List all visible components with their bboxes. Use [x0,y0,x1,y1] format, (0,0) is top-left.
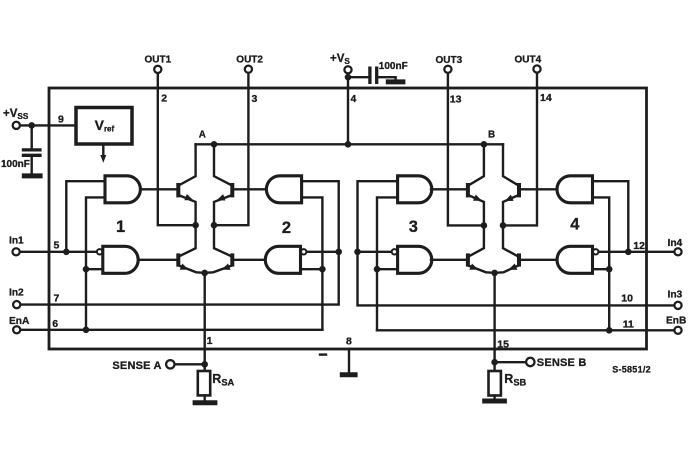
terminal SENSE B [526,358,534,366]
wire EnA up to gate 1a lower input [86,197,105,329]
node B [481,141,488,148]
terminal In1 [13,248,20,255]
transistor Q7 (bridge B lower-left) [431,225,495,273]
node EnA/gate2b junction [319,266,326,273]
ground (C2) [386,79,406,84]
wire bridge A sense (pin 1) [203,273,205,371]
wire EnA branch to gate 1b lower input [86,268,103,270]
terminal OUT3 [444,66,451,73]
wire EnB up to gate 4a lower input [593,197,610,330]
svg-text:8: 8 [346,335,352,347]
wire EnB branch to gate 4b lower input [593,268,610,270]
svg-text:2: 2 [161,93,167,105]
node Vss/cap junction [28,122,35,129]
transistor Q8 (bridge B lower-right) [495,225,557,273]
wire gate 2b bubble to In2 vertical [307,251,339,253]
wire In1 to gate 1b bubble [21,251,97,253]
svg-text:4: 4 [570,216,580,234]
node bridge A right mid (OUT2) [211,222,218,229]
svg-text:15: 15 [497,338,509,350]
wire supply rail (node A to node B) [196,143,503,145]
svg-text:+VS: +VS [330,53,350,66]
svg-text:11: 11 [623,319,634,331]
gate 3b (AND w/ inverted input, drives Q7) [398,246,432,273]
node Vs rail junction [345,141,352,148]
bubble gate 4b input [593,249,598,254]
wire sense A stub [175,363,205,365]
node EnB/gate4b junction [606,266,613,273]
svg-text:In4: In4 [668,238,683,249]
transistor Q3 (bridge A lower-left) [138,225,205,273]
terminal +Vs [344,66,351,73]
wire OUT4 to bridge B right node [503,74,537,226]
wire sense B stub [495,361,526,363]
wire Vs down to supply rail [347,74,349,144]
wire C1 to ground [31,157,33,174]
gate 1a (AND, drives Q1) [105,176,140,203]
ground (pin 8) [340,372,358,377]
terminal +Vss [13,122,20,129]
svg-text:In1: In1 [9,236,24,247]
bubble gate 2b input [301,249,306,254]
wire In4 to gate 4b bubble [599,251,674,253]
wire OUT3 to bridge B left node [448,74,484,226]
svg-text:B: B [488,130,495,141]
svg-text:SENSE A: SENSE A [112,360,161,372]
terminal EnB [674,327,681,334]
svg-text:EnB: EnB [666,315,686,326]
wire In2 to gates 2 [21,181,338,304]
transistor Q1 (bridge A upper-left) [140,144,195,225]
svg-text:OUT1: OUT1 [145,55,172,66]
svg-text:2: 2 [282,219,291,237]
stray mark [320,353,326,355]
node sense B tap [491,359,498,366]
terminal OUT4 [533,65,540,72]
wire OUT2 to bridge A right node [214,74,248,225]
bubble gate 1b input [97,249,102,254]
svg-text:+VSS: +VSS [3,108,29,121]
gate 2a (AND, drives Q2) [266,176,301,203]
svg-text:A: A [199,130,206,141]
svg-text:100nF: 100nF [379,61,408,72]
gate 3a (AND, drives Q5) [398,176,432,203]
transistor Q4 (bridge A lower-right) [205,225,266,273]
node bridge A left mid (OUT1) [192,222,199,229]
terminal SENSE A [166,360,174,368]
transistor Q6 (bridge B upper-right) [503,144,557,225]
wire to cap C2 [348,76,368,78]
terminal In3 [674,302,681,309]
svg-text:10: 10 [621,292,633,304]
svg-text:OUT3: OUT3 [436,55,463,66]
svg-text:5: 5 [54,240,60,252]
regulator Vref [76,108,132,145]
node EnA/gates1 junction [83,327,90,334]
node EnA/gate1b junction [83,266,90,273]
node EnB/gates4 junction [606,327,613,334]
wire bridge B sense (pin 15) [493,273,495,371]
wire RSB to ground [493,396,495,400]
svg-text:100nF: 100nF [1,159,30,170]
terminal In2 [13,301,20,308]
svg-text:6: 6 [52,318,58,330]
terminal In4 [674,248,681,255]
terminal OUT2 [245,66,252,73]
terminal OUT1 [154,66,161,73]
resistor RSA [198,371,210,395]
IC outline box [49,88,647,349]
wire gate 3b bubble to In3 vertical [358,251,392,253]
svg-text:3: 3 [409,218,418,236]
wire In4 up to gate 4a input [593,181,629,252]
transistor Q5 (bridge B upper-left) [431,144,484,225]
node In1/gate1a junction [63,249,70,256]
svg-text:1: 1 [116,218,125,236]
gate 1b (AND w/ inverted input, drives Q3) [103,246,138,273]
wire In3 to gates 3 [358,181,674,305]
svg-text:OUT4: OUT4 [515,55,542,66]
capacitor C1 100nF [22,150,42,155]
capacitor C2 100nF [370,67,377,85]
svg-text:S-5851/2: S-5851/2 [612,365,651,375]
wire RSA to ground [203,395,205,400]
transistor Q2 (bridge A upper-right) [214,144,266,225]
svg-text:In3: In3 [668,290,683,301]
bubble gate 3b input [392,249,397,254]
svg-text:14: 14 [540,92,552,104]
wire Vss to Vref (pin 9) [21,124,76,126]
wire In1 up to gate 1a input [66,181,105,252]
svg-text:4: 4 [351,93,357,105]
node Vs cap tap [345,74,352,81]
wire EnB branch to gate 3b lower input [377,268,398,270]
ground (C1) [22,173,43,178]
wire EnB line [377,329,673,331]
wire Vref output arrow [102,144,104,157]
gate 4b (AND w/ inverted input, drives Q8) [557,246,593,273]
svg-text:OUT2: OUT2 [236,55,263,66]
svg-text:RSA: RSA [212,372,234,387]
node In2/gate2b bubble junction [335,249,342,256]
wire EnA up to gate 2a lower input [302,197,323,329]
node A [211,141,218,148]
svg-text:1: 1 [207,335,213,347]
wire EnB up to gate 3a lower input [377,197,398,330]
node sense A tap [201,361,208,368]
svg-text:EnA: EnA [9,316,30,327]
wire OUT1 to bridge A left node [158,74,196,225]
svg-text:RSB: RSB [504,372,526,387]
ground (RSA) [193,400,218,405]
wire cap C1 branch [31,125,33,148]
svg-text:13: 13 [450,93,462,105]
svg-text:9: 9 [58,114,64,126]
gate 2b (AND w/ inverted input, drives Q4) [265,246,300,273]
gate 4a (AND, drives Q6) [557,176,593,203]
ground (RSB) [482,399,507,404]
svg-text:In2: In2 [9,288,24,299]
node In4/gate4a junction [625,249,632,256]
node In3/gate3b bubble junction [354,249,361,256]
node EnB/gate3b junction [374,266,381,273]
resistor RSB [489,371,501,396]
terminal EnA [13,326,20,333]
pin 8 ground stub [348,349,350,372]
wire C2 to ground [378,77,395,79]
node bridge B left mid (OUT3) [481,222,488,229]
node bridge B right mid (OUT4) [500,222,507,229]
wire EnA line [21,329,322,331]
svg-text:7: 7 [54,292,60,304]
svg-text:12: 12 [633,240,645,252]
node bridge A common emitter [201,270,208,277]
node bridge B common emitter [491,270,498,277]
svg-text:3: 3 [252,93,258,105]
svg-text:SENSE B: SENSE B [537,357,587,369]
wire EnA branch to gate 2b lower input [301,268,323,270]
